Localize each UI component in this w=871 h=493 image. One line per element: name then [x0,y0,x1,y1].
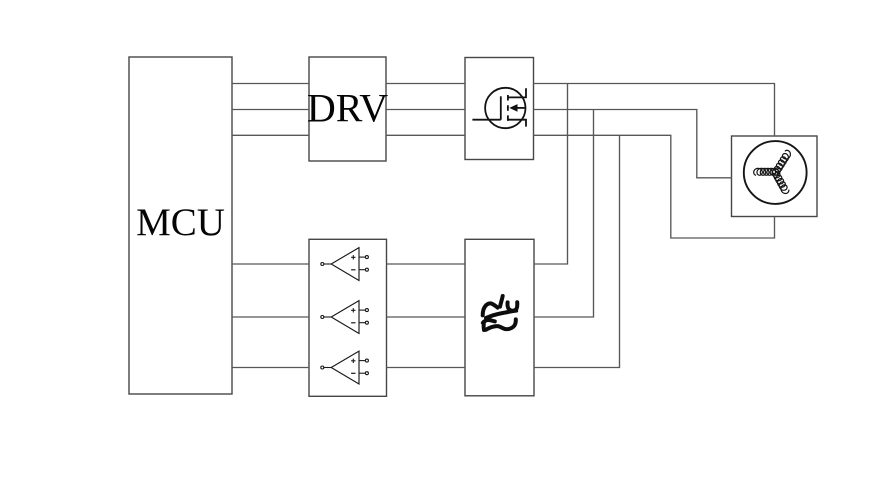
wire phase B: MOSFET block to motor left [534,110,732,178]
MOSFET Q1 channel dashed bar [507,95,509,121]
wire DRV to MOSFET block row1 [386,83,465,85]
motor winding left coil [754,168,779,175]
motor M circle [744,141,807,204]
comparator A1 inverting input circle [365,268,368,271]
comparator A1 non-inverting input stub [359,256,365,258]
comparator A1 triangle [331,248,359,281]
wire comparator to MCU row1 [232,263,309,265]
wire filter to comparator row2 [387,316,466,318]
comparator A2 triangle [331,301,359,334]
MOSFET Q1 drain bar [508,88,526,97]
comparator A2 non-inverting input stub [359,309,365,311]
wire MCU to DRV row3 [232,134,309,136]
wire comparator to MCU row3 [232,367,309,369]
MOSFET Q1 body arrow bar [517,107,525,109]
MOSFET Q1 circle [485,88,525,128]
comparator A2 plus sign [351,308,355,312]
comparator A1 output terminal circle [321,263,324,266]
MOSFET Q1 gate bar [500,96,502,119]
motor block [732,136,818,217]
filter block glyph [483,296,518,330]
comparator A1 non-inverting input circle [365,256,368,259]
comparator A1 inverting input stub [359,269,365,271]
MOSFET Q1 body arrow head [509,104,517,112]
MOSFET Q1 source bar [508,120,526,127]
comparator A2 inverting input circle [365,321,368,324]
MOSFET power-stage block [465,58,534,160]
comparator A3 non-inverting input circle [365,359,368,362]
DRV block U2 [309,57,386,161]
comparator A2 output lead [324,316,331,318]
comparator A2 output terminal circle [321,316,324,319]
motor winding upper-right coil [772,150,790,175]
comparator A2 minus sign [351,322,355,324]
MOSFET Q1 gate lead [472,119,500,121]
comparator A1 plus sign [351,255,355,259]
comparator A3 minus sign [351,372,355,374]
wire sense tap B to filter block [534,110,594,318]
comparator A3 plus sign [351,359,355,363]
wire comparator to MCU row2 [232,316,309,318]
wire phase C: MOSFET block to motor bottom [534,135,775,238]
sense/filter block [465,239,534,395]
comparator A3 triangle [331,351,359,384]
comparator A1 minus sign [351,269,355,271]
comparator A3 non-inverting input stub [359,360,365,362]
wire MCU to DRV row2 [232,109,309,111]
comparator A3 output terminal circle [321,366,324,369]
comparator bank block [309,239,387,396]
wire MCU to DRV row1 [232,83,309,85]
comparator A3 output lead [324,367,331,369]
wire phase A: MOSFET block to motor top [534,84,775,137]
wire DRV to MOSFET block row3 [386,134,465,136]
wire sense tap A to filter block [534,84,568,265]
svg-text:MCU: MCU [136,201,225,244]
MCU block U1 [129,57,232,394]
wire filter to comparator row1 [387,263,466,265]
motor winding lower-right coil [772,169,789,194]
wire DRV to MOSFET block row2 [386,109,465,111]
comparator A3 inverting input stub [359,372,365,374]
comparator A1 output lead [324,263,331,265]
comparator A2 non-inverting input circle [365,309,368,312]
wire filter to comparator row3 [387,367,466,369]
comparator A2 inverting input stub [359,322,365,324]
comparator A3 inverting input circle [365,372,368,375]
wire sense tap C to filter block [534,135,620,367]
svg-text:DRV: DRV [307,86,388,131]
